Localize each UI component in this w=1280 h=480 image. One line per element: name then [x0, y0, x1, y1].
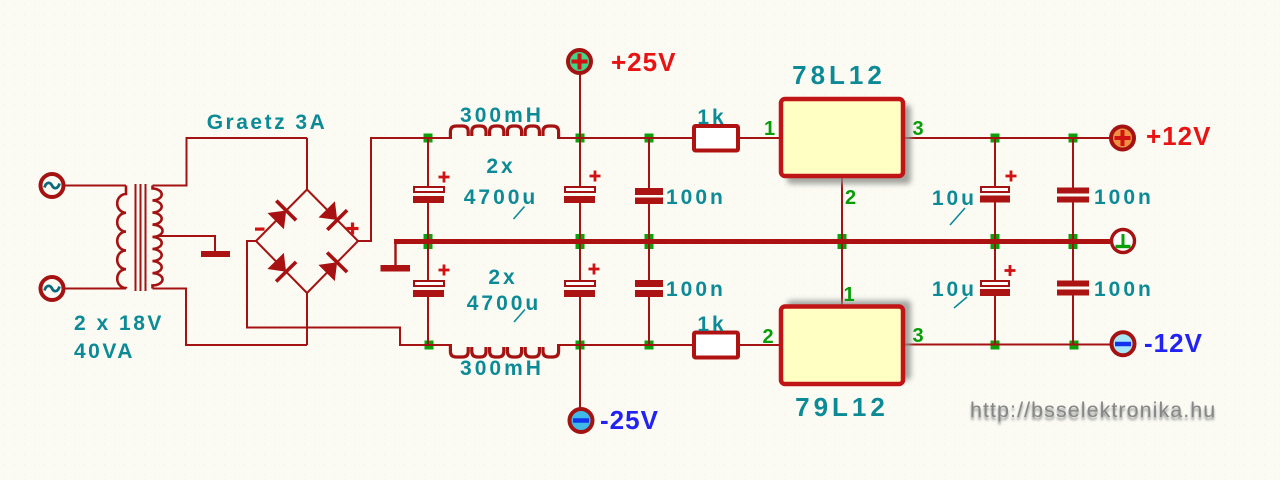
capacitor C4 4700u lower x580 [564, 264, 600, 298]
terminal -12V [1112, 332, 1135, 355]
svg-text:100n: 100n [1094, 278, 1154, 301]
svg-text:-25V: -25V [600, 405, 659, 435]
diode D4 bottom-right [318, 253, 347, 282]
wire x649 upper [648, 138, 650, 188]
op IC U2 79L12 box [781, 307, 903, 385]
AC terminal bottom [41, 277, 64, 300]
tick upper 10u [950, 208, 965, 225]
svg-text:1: 1 [843, 284, 854, 306]
ground bar at transformer center tap [201, 251, 230, 257]
wire secondary top riser [186, 138, 188, 187]
junction at ground rail x649 [645, 234, 654, 249]
wire x428 middle [427, 203, 429, 281]
transformer T1 primary winding [117, 186, 126, 289]
wire top rail segment b [557, 137, 694, 139]
capacitor C10 100n lower-right [1057, 281, 1089, 296]
svg-text:79L12: 79L12 [795, 392, 889, 422]
wire AC2 lead to primary [64, 288, 127, 290]
inductor L1 top 300mH [450, 126, 558, 139]
wire secondary bottom lead [153, 288, 188, 290]
wire x428 upper [427, 138, 429, 187]
terminal +12V [1111, 127, 1134, 150]
junction at ground rail x995 [991, 234, 1000, 249]
svg-text:3: 3 [912, 118, 923, 140]
junction at bottom rail x580 [576, 341, 585, 350]
junction at ground rail x1073 [1069, 234, 1078, 249]
svg-text:78L12: 78L12 [792, 60, 886, 90]
svg-text:2x: 2x [486, 155, 515, 178]
svg-text:10u: 10u [932, 278, 977, 301]
wire x428 lower [427, 297, 429, 345]
wire x995 lower [994, 296, 996, 345]
svg-text:http://bsselektronika.hu: http://bsselektronika.hu [970, 398, 1216, 422]
terminal -25V [570, 409, 593, 432]
bridge minus mark [255, 228, 265, 231]
svg-text:40VA: 40VA [74, 340, 135, 363]
junction at top rail x649 [645, 134, 654, 143]
wire top rail segment a [428, 137, 452, 139]
tick upper 4700u [514, 207, 525, 220]
wire bottom rail segment c [738, 344, 781, 346]
diode D2 top-right [319, 201, 348, 230]
junction at bottom rail x429 [425, 341, 434, 350]
junction at ground rail x842 [838, 234, 847, 249]
transformer T1 core lines [136, 184, 146, 291]
junction at ground rail x428 [424, 234, 433, 249]
wire regulator pins 2-1 vertical x842 [841, 176, 843, 306]
wire bottom riser [185, 289, 187, 346]
svg-text:+25V: +25V [611, 47, 676, 77]
wire bridge top drop [306, 138, 308, 190]
svg-text:1k: 1k [697, 313, 726, 336]
terminal +25V [568, 50, 591, 73]
op IC U2 79L12 shadow [787, 301, 911, 381]
ground bar at rail left end [381, 265, 411, 272]
junction at bottom rail x1074 [1070, 341, 1079, 350]
junction at top rail x580 [576, 134, 585, 143]
svg-text:10u: 10u [932, 187, 977, 210]
inductor L2 bottom 300mH [450, 345, 558, 358]
wire x580 lower to -25V [579, 297, 581, 408]
wire 78L12 pin3 output [903, 137, 1110, 139]
wire 79L12 pin3 output [903, 344, 1110, 346]
wire AC1 lead to primary [64, 185, 127, 187]
svg-text:-12V: -12V [1144, 328, 1203, 358]
junction at top rail x1073 [1069, 134, 1078, 143]
tick lower 4700u [514, 310, 525, 323]
svg-text:300mH: 300mH [460, 104, 544, 127]
ground rail thick [394, 239, 1110, 244]
capacitor C8 10u lower [980, 265, 1016, 296]
capacitor C6 100n lower-left [635, 280, 663, 297]
op IC U1 78L12 shadow [787, 105, 911, 184]
tick lower 10u [954, 297, 967, 308]
wire bridge bottom drop [306, 293, 308, 345]
svg-text:100n: 100n [1094, 186, 1154, 209]
AC terminal top [41, 174, 64, 197]
capacitor C2 4700u lower-left [413, 265, 450, 298]
wire x1073 middle [1072, 202, 1074, 281]
svg-text:2: 2 [845, 187, 856, 209]
wire top rail segment c [738, 137, 781, 139]
capacitor C5 100n upper-left [635, 188, 663, 204]
wire bottom rail segment b [557, 344, 694, 346]
capacitor C7 10u upper [980, 171, 1017, 203]
wire bridge plus output path [358, 138, 429, 241]
diode D3 bottom-left [267, 253, 296, 282]
ground stub at rail left end [394, 244, 396, 265]
svg-text:4700u: 4700u [467, 292, 542, 315]
wire x995 middle [994, 203, 996, 282]
wire bridge minus output path [247, 241, 429, 345]
svg-text:+12V: +12V [1146, 121, 1211, 151]
bridge rectifier edges [256, 190, 358, 294]
wire x995 upper [994, 138, 996, 187]
wire center tap drop [214, 235, 216, 252]
bridge plus mark [347, 223, 359, 235]
resistor R2 1k bottom [694, 333, 738, 358]
svg-text:1k: 1k [697, 106, 726, 129]
wire top feed to bridge [186, 137, 308, 139]
svg-text:4700u: 4700u [464, 186, 539, 209]
wire x649 lower [648, 297, 650, 345]
wire x580 middle [579, 203, 581, 281]
wire bottom rail segment a [429, 344, 452, 346]
wire secondary top lead [153, 185, 188, 187]
junction at bottom rail x649 [645, 341, 654, 350]
transformer T1 secondary winding [153, 186, 163, 289]
svg-text:Graetz 3A: Graetz 3A [207, 111, 328, 134]
svg-text:2: 2 [762, 326, 773, 348]
svg-text:100n: 100n [666, 186, 726, 209]
wire x1073 lower [1072, 296, 1074, 346]
svg-text:300mH: 300mH [460, 357, 544, 380]
terminal ground [1112, 230, 1135, 253]
capacitor C3 4700u upper x580 [564, 171, 601, 204]
wire x649 middle [648, 204, 650, 280]
svg-text:2 x 18V: 2 x 18V [74, 312, 164, 335]
wire bottom feed to bridge [185, 344, 307, 346]
svg-text:3: 3 [912, 325, 923, 347]
svg-text:100n: 100n [666, 278, 726, 301]
junction at top rail x428 [424, 134, 433, 143]
junction at top rail x995 [991, 134, 1000, 143]
junction at bottom rail x995 [991, 341, 1000, 350]
op IC U1 78L12 box [781, 99, 903, 176]
svg-text:1: 1 [764, 118, 775, 140]
wire x1073 upper [1072, 138, 1074, 188]
junction at ground rail x580 [576, 234, 585, 249]
wire secondary center tap [158, 235, 215, 237]
diode D1 top-left [268, 201, 297, 230]
capacitor C9 100n upper-right [1057, 188, 1089, 203]
svg-text:2x: 2x [488, 266, 517, 289]
resistor R1 1k top [694, 126, 738, 151]
wire +25V drop [579, 74, 581, 188]
capacitor C1 4700u upper-left [413, 172, 450, 204]
